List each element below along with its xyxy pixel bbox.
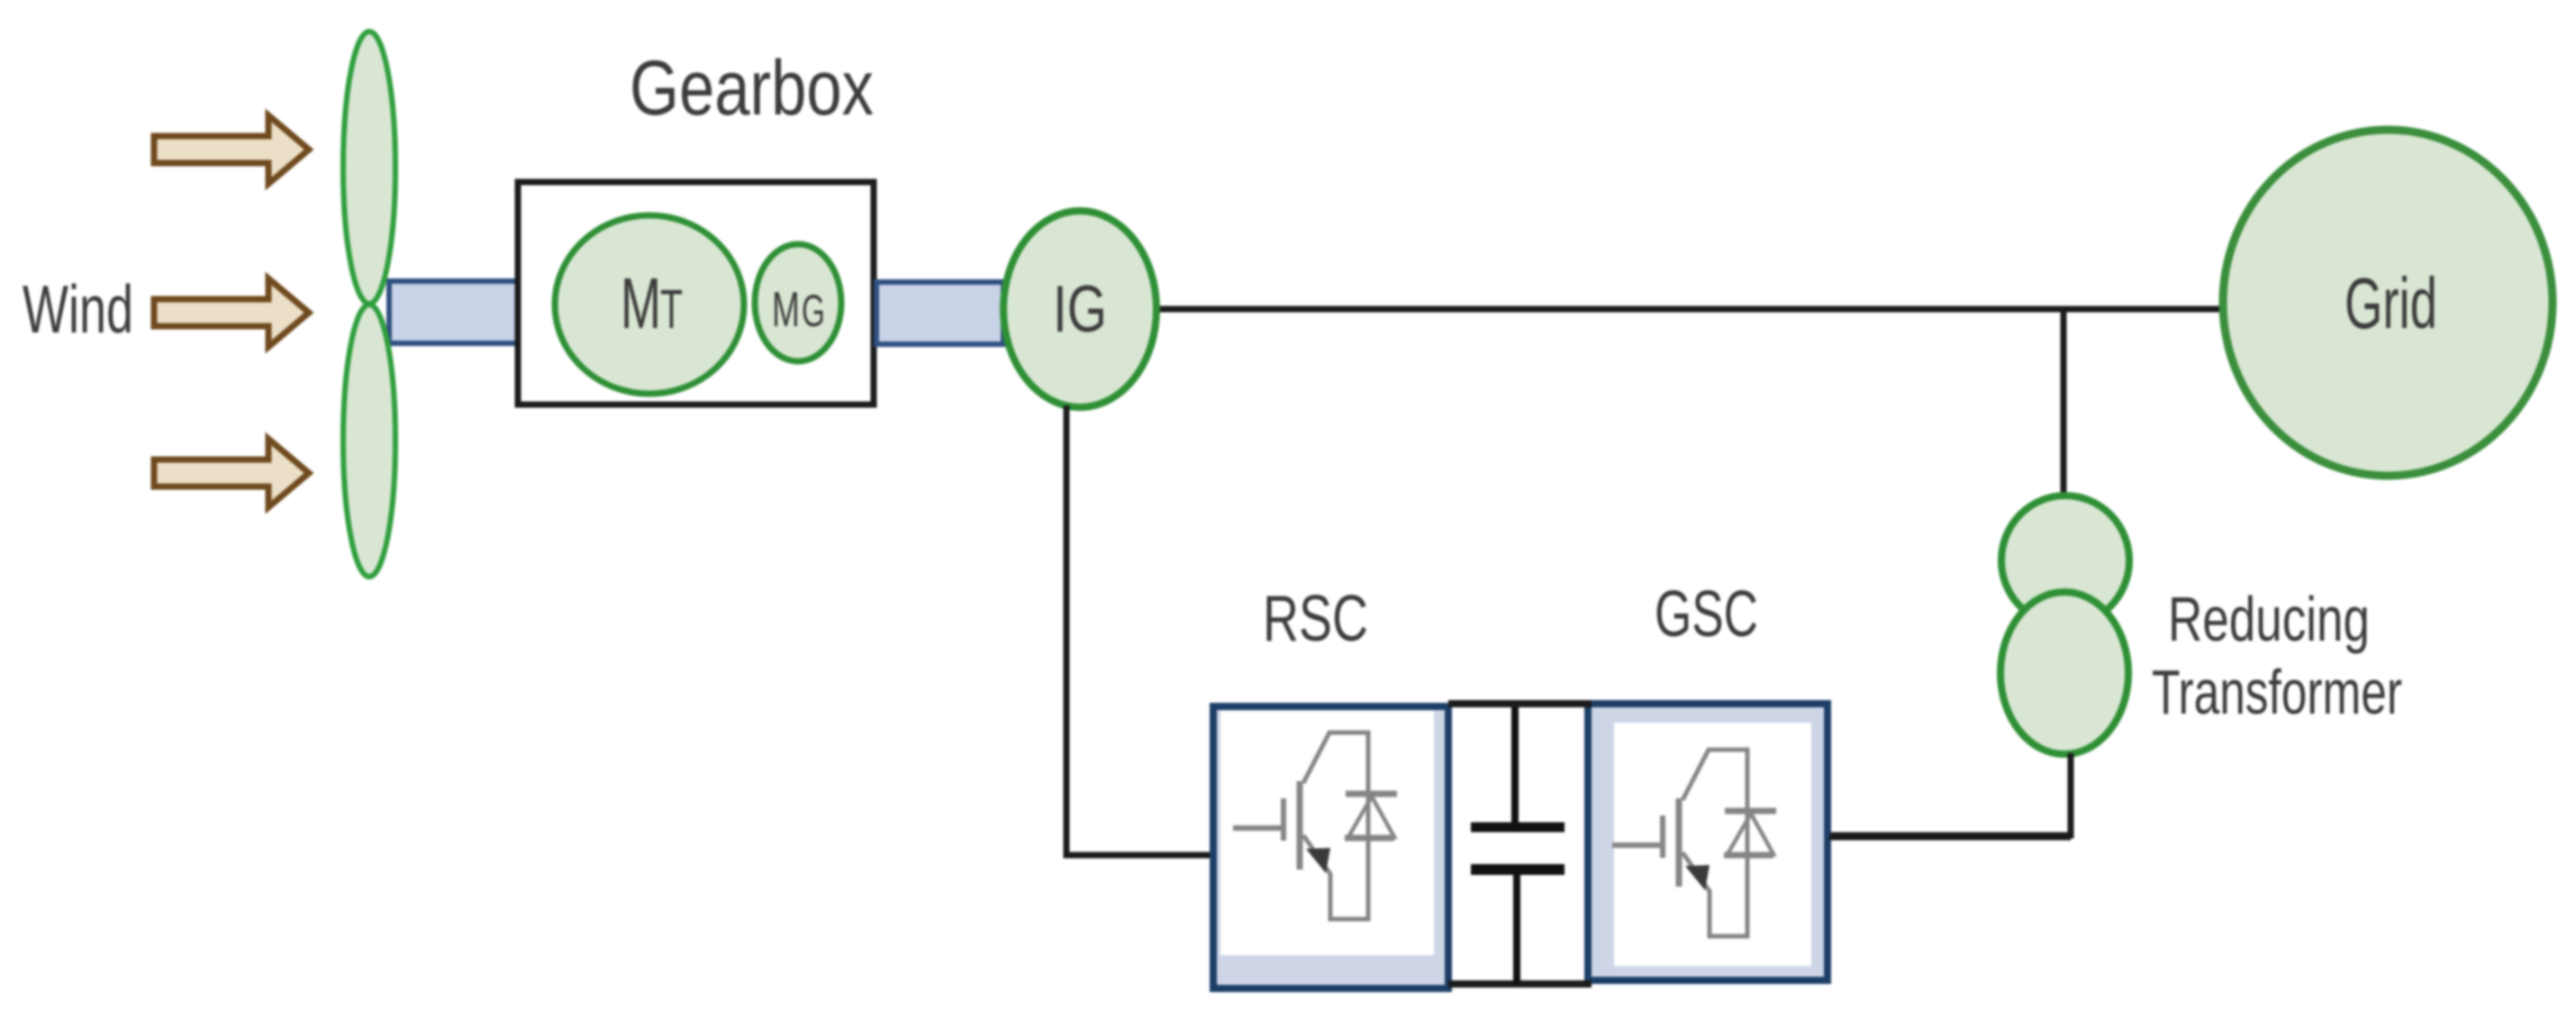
branch wire to transformer <box>2061 309 2067 499</box>
GSC inner panel <box>1614 723 1811 966</box>
rotor wire from IG to RSC <box>1066 405 1212 855</box>
reducing transformer primary winding <box>2001 496 2129 625</box>
wind arrow 3 <box>154 439 309 507</box>
gear MT <box>555 215 744 394</box>
svg-text:M: M <box>772 281 800 337</box>
turbine blade top <box>343 32 395 304</box>
gearbox box <box>518 182 874 405</box>
svg-text:T: T <box>660 278 683 340</box>
IGBT with antiparallel diode (RSC) <box>1233 733 1397 919</box>
svg-text:IG: IG <box>1053 273 1107 346</box>
svg-text:G: G <box>802 286 825 336</box>
reducing transformer secondary winding <box>2000 592 2128 754</box>
IGBT with antiparallel diode (GSC) <box>1612 750 1776 936</box>
GSC output wire <box>1829 834 2071 841</box>
svg-text:M: M <box>621 263 661 343</box>
stator bus wire to grid <box>1138 306 2225 313</box>
dc-link bottom rail <box>1448 980 1592 988</box>
GSC converter box <box>1588 704 1828 980</box>
high-speed shaft <box>876 282 1003 344</box>
svg-text:RSC: RSC <box>1263 583 1368 655</box>
wind arrow 1 <box>154 115 309 184</box>
induction generator IG <box>1003 211 1156 407</box>
transformer lower lead <box>1829 753 2071 835</box>
RSC converter box <box>1213 706 1448 988</box>
RSC inner panel <box>1220 711 1434 955</box>
gear MG <box>755 244 841 361</box>
svg-text:GSC: GSC <box>1655 578 1758 651</box>
svg-text:Reducing: Reducing <box>2168 584 2370 654</box>
svg-text:Gearbox: Gearbox <box>630 45 874 132</box>
low-speed shaft <box>389 281 518 343</box>
wind arrow 2 <box>154 278 309 347</box>
dc-link capacitor <box>1471 707 1565 984</box>
dc-link top rail <box>1448 700 1592 707</box>
turbine blade bottom <box>343 305 395 577</box>
svg-text:Grid: Grid <box>2345 263 2437 343</box>
svg-text:Transformer: Transformer <box>2152 657 2402 727</box>
svg-text:Wind: Wind <box>23 271 133 347</box>
grid <box>2223 130 2553 476</box>
